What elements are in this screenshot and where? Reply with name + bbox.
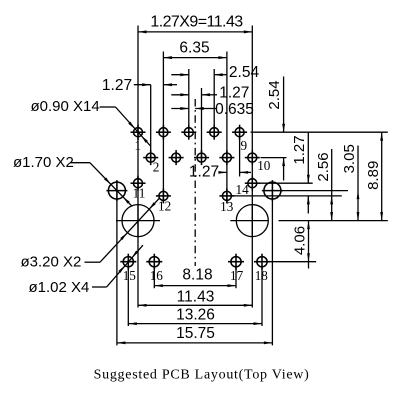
hole pin 14 (Ø0.90) bbox=[245, 176, 260, 191]
dimension 1.27 vertical bbox=[291, 132, 310, 213]
svg-text:11.43: 11.43 bbox=[177, 288, 215, 305]
svg-text:8.18: 8.18 bbox=[182, 266, 212, 283]
extension line col pin15 bbox=[127, 267, 129, 326]
shield hole right (Ø3.20) bbox=[236, 205, 268, 237]
reference line pin row 1 bbox=[251, 131, 388, 133]
extension line col pin17 bbox=[235, 267, 237, 288]
extension line col pin16 bbox=[153, 267, 155, 288]
svg-text:1.27: 1.27 bbox=[291, 135, 308, 164]
post hole right (Ø1.70) bbox=[262, 180, 283, 201]
hole pin 1 (Ø0.90) bbox=[131, 125, 146, 140]
svg-text:15.75: 15.75 bbox=[176, 325, 215, 342]
hole pin 13 (Ø0.90) bbox=[219, 188, 234, 203]
reference line pins 11/14 row bbox=[257, 182, 313, 184]
hole pin 17 (Ø1.02) bbox=[228, 254, 244, 270]
dimension 8.89 bbox=[365, 132, 383, 220]
dimension 2.56 bbox=[315, 149, 333, 221]
extension line col pin1/pin11/shield-left bbox=[137, 26, 139, 308]
svg-text:2.56: 2.56 bbox=[315, 152, 332, 181]
svg-text:13.26: 13.26 bbox=[176, 307, 215, 324]
extension line col pin3/pin12 bbox=[162, 52, 164, 204]
extension line col pin8/pin13 bbox=[226, 52, 228, 204]
reference line post row bbox=[281, 190, 348, 192]
reference line pin row 2 bbox=[261, 157, 287, 159]
callout Ø1.70 ×2 with leader through left post bbox=[13, 154, 132, 206]
dimension 1.27 lower bbox=[189, 163, 251, 180]
svg-text:8.89: 8.89 bbox=[365, 161, 382, 190]
svg-text:1.27: 1.27 bbox=[102, 77, 132, 94]
svg-text:ø0.90 X14: ø0.90 X14 bbox=[31, 98, 100, 115]
reference line pins 12/13 row bbox=[231, 195, 341, 197]
dimension 2.54 vertical bbox=[266, 77, 285, 181]
dimension 1.27 upper-left bbox=[102, 77, 177, 94]
extension line col post-left bbox=[116, 199, 118, 345]
extension line col pin9 lower bbox=[239, 137, 241, 177]
hole pin 7 (Ø0.90) bbox=[207, 125, 222, 140]
extension line col pin18 bbox=[261, 267, 263, 326]
hole pin 10 (Ø0.90) bbox=[245, 150, 260, 165]
dimension 13.26 bbox=[128, 307, 262, 325]
hole pin 8 (Ø0.90) bbox=[219, 150, 234, 165]
dimension 1.27 stacked bbox=[171, 85, 249, 102]
svg-text:2.54: 2.54 bbox=[229, 64, 260, 81]
dimension 4.06 bbox=[292, 221, 310, 269]
svg-text:2.54: 2.54 bbox=[266, 80, 283, 109]
hole pin 9 (Ø0.90) bbox=[232, 125, 247, 140]
dimension 11.43 bbox=[138, 288, 252, 307]
dimension 0.635 bbox=[171, 101, 254, 118]
svg-text:Suggested PCB Layout(Top View): Suggested PCB Layout(Top View) bbox=[94, 367, 310, 382]
svg-text:4.06: 4.06 bbox=[292, 226, 309, 255]
hole pin 15 (Ø1.02) bbox=[120, 254, 136, 270]
svg-text:ø1.02 X4: ø1.02 X4 bbox=[29, 279, 90, 296]
hole pin 11 (Ø0.90) bbox=[131, 176, 146, 191]
extension line col pin10/pin14/shield-right bbox=[251, 26, 253, 308]
extension line col pin5 bbox=[188, 69, 190, 132]
svg-text:1.27: 1.27 bbox=[219, 85, 249, 102]
hole pin 18 (Ø1.02) bbox=[254, 254, 270, 270]
svg-text:10: 10 bbox=[257, 158, 271, 173]
extension line col pin2 bbox=[150, 85, 152, 158]
extension line col pin7 bbox=[213, 69, 215, 132]
svg-text:9: 9 bbox=[241, 138, 248, 153]
svg-text:17: 17 bbox=[230, 268, 244, 283]
hole pin 3 (Ø0.90) bbox=[156, 125, 171, 140]
callout Ø0.90 ×14 with leader through pin 1 bbox=[31, 98, 151, 146]
hole pin 12 (Ø0.90) bbox=[156, 188, 171, 203]
hole pin 5 (Ø0.90) bbox=[181, 125, 196, 140]
dimension 2.54 horizontal bbox=[171, 64, 259, 81]
svg-text:2: 2 bbox=[153, 159, 160, 174]
svg-text:15: 15 bbox=[123, 268, 137, 283]
svg-text:ø3.20 X2: ø3.20 X2 bbox=[21, 254, 82, 271]
extension line col pin6 bbox=[201, 88, 203, 158]
svg-text:1.27: 1.27 bbox=[189, 163, 219, 180]
hole pin 4 (Ø0.90) bbox=[169, 150, 184, 165]
svg-text:1.27X9=11.43: 1.27X9=11.43 bbox=[150, 14, 243, 31]
dimension 3.05 bbox=[341, 144, 359, 220]
extension line col post-right bbox=[271, 199, 273, 345]
callout Ø1.02 ×4 with leader through pin 15 bbox=[29, 245, 143, 296]
svg-text:14: 14 bbox=[236, 182, 250, 197]
shield hole left (Ø3.20) bbox=[122, 205, 154, 237]
svg-text:16: 16 bbox=[150, 268, 164, 283]
vertical centerline bbox=[194, 99, 196, 266]
hole pin 2 (Ø0.90) bbox=[143, 150, 158, 165]
dimension 6.35 bbox=[163, 40, 227, 60]
hole pin 6 (Ø0.90) bbox=[194, 150, 209, 165]
dimension 1.27X9=11.43 bbox=[138, 14, 252, 34]
reference line shield row bbox=[279, 220, 388, 222]
dimension 15.75 bbox=[117, 325, 273, 344]
reference line bottom pin row bbox=[267, 261, 316, 263]
callout Ø3.20 ×2 with leader through left shield hole bbox=[21, 198, 160, 270]
svg-text:ø1.70 X2: ø1.70 X2 bbox=[13, 154, 74, 171]
dimension 8.18 bbox=[154, 266, 236, 287]
svg-text:12: 12 bbox=[158, 199, 171, 214]
svg-text:6.35: 6.35 bbox=[179, 40, 209, 57]
svg-text:0.635: 0.635 bbox=[215, 101, 254, 118]
svg-text:11: 11 bbox=[133, 186, 146, 201]
svg-text:3.05: 3.05 bbox=[341, 144, 358, 173]
post hole left (Ø1.70) bbox=[106, 180, 127, 201]
hole pin 16 (Ø1.02) bbox=[146, 254, 162, 270]
